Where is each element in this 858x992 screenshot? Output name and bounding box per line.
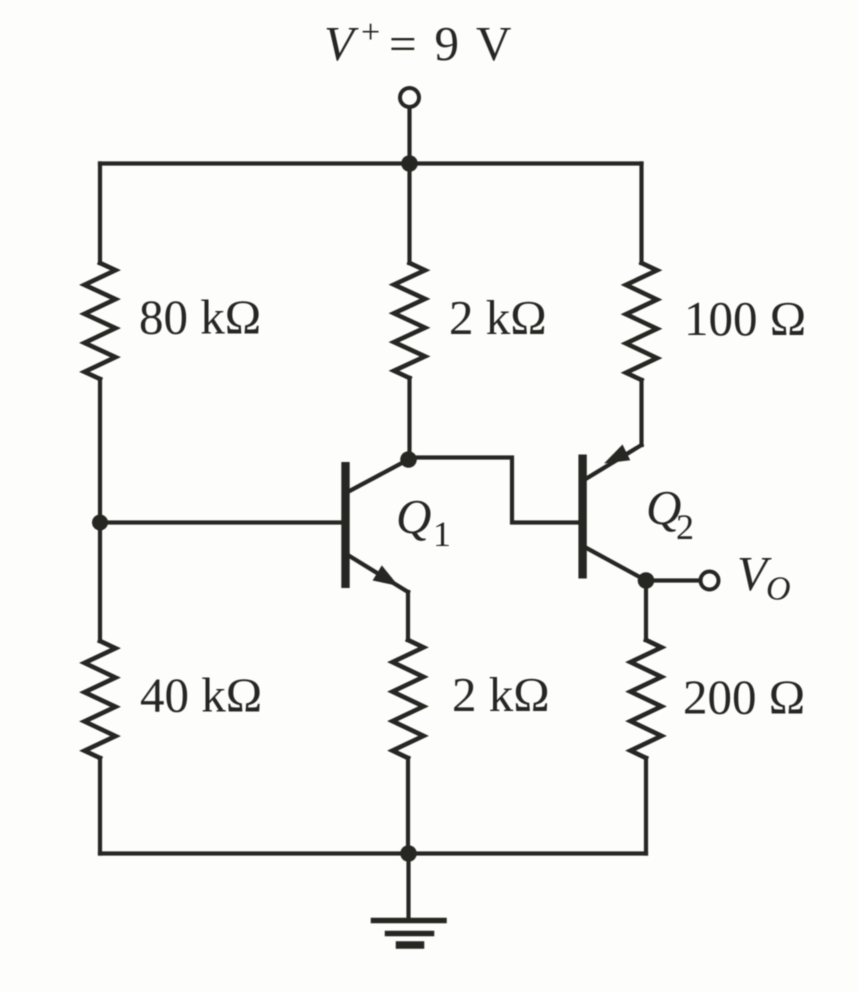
svg-text:V: V xyxy=(324,16,359,71)
svg-text:40 kΩ: 40 kΩ xyxy=(140,668,262,723)
svg-text:2 kΩ: 2 kΩ xyxy=(452,667,550,722)
transistor Q2 (pnp) xyxy=(578,455,586,579)
wire left branch lower (40k to bottom rail) xyxy=(98,758,102,854)
resistor 2 kOhm (emitter of Q1) xyxy=(393,640,424,758)
svg-text:Q: Q xyxy=(396,489,431,544)
wire 200R to bottom rail xyxy=(644,758,648,854)
svg-text:100 Ω: 100 Ω xyxy=(684,291,806,346)
transistor Q1 (npn) xyxy=(341,462,349,588)
wire 2k to Q1 collector node xyxy=(407,378,411,459)
wire Q1 collector node to Q2 base (right, down, right) xyxy=(410,458,579,523)
resistor 200 Ohm xyxy=(631,640,662,758)
junction dot: top rail / middle branch xyxy=(401,155,418,172)
svg-text:O: O xyxy=(766,571,791,608)
wire Q1 base from left branch xyxy=(100,520,342,524)
wire 100R to Q2 emitter xyxy=(639,380,643,445)
resistor 80 kOhm xyxy=(85,263,116,379)
wire lower 2k to bottom rail xyxy=(406,758,410,854)
svg-text:2 kΩ: 2 kΩ xyxy=(449,290,547,345)
junction dot: bottom rail / ground xyxy=(400,845,417,862)
svg-text:2: 2 xyxy=(676,507,694,547)
svg-text:= 9 V: = 9 V xyxy=(389,16,514,71)
resistor 100 Ohm xyxy=(626,263,657,380)
junction dot: Vo node xyxy=(638,572,655,589)
resistor 40 kOhm xyxy=(85,641,116,758)
svg-text:200 Ω: 200 Ω xyxy=(683,670,805,725)
wire right branch upper (rail to 100R) xyxy=(639,164,643,264)
wire left branch middle (80k to 40k) xyxy=(98,379,102,641)
wire left branch upper (rail to 80k) xyxy=(98,164,102,264)
node V+ supply terminal xyxy=(400,88,419,107)
wire middle branch upper (rail to 2k) xyxy=(407,164,411,264)
wire bottom ground rail xyxy=(100,851,646,855)
wire top supply rail xyxy=(100,161,642,165)
wire Q2 collector to 200R xyxy=(644,581,648,641)
resistor 2 kOhm (collector of Q1) xyxy=(394,263,425,378)
svg-text:80 kΩ: 80 kΩ xyxy=(139,290,261,345)
junction dot: Q1 collector node xyxy=(400,451,417,468)
svg-text:+: + xyxy=(361,14,380,51)
ground xyxy=(406,854,410,919)
wire V+ terminal to top rail xyxy=(407,108,411,164)
junction dot: left branch / Q1 base xyxy=(92,515,108,531)
wire Q1 emitter to lower 2k xyxy=(406,592,410,640)
node Vo: junction dot, wire and terminal xyxy=(646,578,701,582)
svg-text:1: 1 xyxy=(433,514,451,554)
